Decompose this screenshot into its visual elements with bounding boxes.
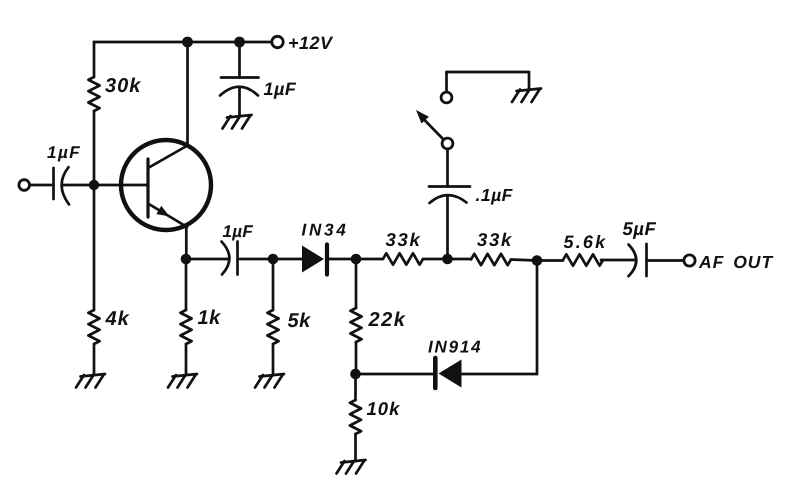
svg-text:10k: 10k: [367, 398, 402, 419]
svg-text:5µF: 5µF: [623, 218, 657, 239]
svg-text:33k: 33k: [477, 229, 513, 250]
svg-text:5.6k: 5.6k: [564, 232, 608, 252]
svg-text:.1µF: .1µF: [476, 185, 514, 205]
svg-text:IN914: IN914: [428, 338, 482, 357]
svg-text:AF OUT: AF OUT: [698, 252, 773, 272]
svg-text:4k: 4k: [105, 308, 130, 330]
svg-text:33k: 33k: [386, 229, 422, 250]
svg-text:5k: 5k: [288, 310, 312, 332]
svg-text:+12V: +12V: [288, 33, 334, 53]
svg-text:1µF: 1µF: [264, 79, 297, 99]
svg-text:30k: 30k: [105, 75, 141, 97]
svg-text:1k: 1k: [198, 307, 222, 329]
svg-text:IN34: IN34: [302, 221, 349, 240]
svg-text:1µF: 1µF: [47, 143, 81, 162]
svg-text:22k: 22k: [368, 309, 407, 331]
svg-text:1µF: 1µF: [223, 222, 254, 241]
